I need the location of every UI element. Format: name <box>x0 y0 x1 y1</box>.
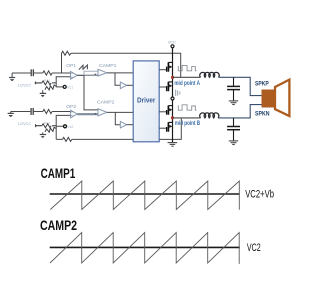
ground GND7 (filter B) <box>229 141 238 145</box>
icon PWM A <box>178 65 196 70</box>
capacitor C4 (filter B) <box>227 118 240 141</box>
node terminal Vs1 <box>63 85 66 88</box>
wire L1 to speaker SPKP <box>219 77 262 95</box>
terminal tick 1/2VCC A <box>35 82 42 85</box>
resistor R1 (input A series) <box>43 71 52 75</box>
svg-text:mid point A: mid point A <box>174 80 200 87</box>
inductor L2 <box>200 113 219 118</box>
wire feedback A rail to mid point A <box>62 53 181 77</box>
capacitor C3 (filter A) <box>227 77 240 100</box>
icon signal bars <box>176 90 180 96</box>
wire ramp down to CAMP2 <box>84 75 98 110</box>
wire OP1 output <box>77 74 98 76</box>
resistor R2 (divider A upper) <box>42 81 56 85</box>
wire BUF2 to Driver <box>127 124 134 126</box>
speaker SPKR <box>262 80 290 116</box>
axis CAMP1 <box>50 193 240 195</box>
wire mid point A to filter <box>173 76 201 78</box>
svg-text:VCC: VCC <box>168 41 176 45</box>
wire R4 to OP2 inverting input <box>52 111 70 113</box>
op-amp OP1 <box>71 71 78 79</box>
svg-text:CAMP2: CAMP2 <box>40 218 77 234</box>
resistor RF2 (feedback B) <box>63 137 72 141</box>
transistor Q1 <box>159 62 172 71</box>
svg-text:1/2VCC: 1/2VCC <box>18 122 32 126</box>
transistor Q3 <box>159 106 172 115</box>
transistor Q2 <box>159 82 172 91</box>
ground GND4 (divider B) <box>40 132 46 137</box>
icon PWM B <box>178 105 196 110</box>
svg-text:CAMP1: CAMP1 <box>41 166 76 182</box>
svg-text:Vs1: Vs1 <box>67 85 73 89</box>
node mid point A (red dot) <box>171 76 174 79</box>
wire power rail (VCC to ground) <box>172 48 174 143</box>
buffer BUF1 <box>120 82 126 89</box>
terminal mid rail <box>171 97 174 100</box>
resistor R4 (input B series) <box>43 109 52 113</box>
wire CAMP2 output to Driver <box>107 111 133 113</box>
bus box (ramp to CAMP1) <box>84 71 98 75</box>
sawtooth CAMP1 <box>50 181 239 210</box>
wire mid point B to filter <box>173 117 201 119</box>
resistor R3 (divider A lower, tilted) <box>45 85 56 90</box>
sawtooth CAMP2 <box>50 233 239 264</box>
inductor L1 <box>200 72 220 77</box>
wire CAMP2 branch to buffer <box>115 112 120 124</box>
comparator CAMP2 <box>95 109 107 116</box>
ground GND1 (input A) <box>9 73 15 81</box>
wire feedback B rail to mid point B <box>56 118 181 139</box>
wire input B to coupling cap <box>11 111 31 113</box>
comparator CAMP1 <box>95 69 107 76</box>
resistor R5 (divider B upper) <box>42 124 56 128</box>
svg-text:1/2VCC: 1/2VCC <box>18 84 32 88</box>
terminal tick 1/2VCC B <box>36 124 42 127</box>
svg-text:mid point B: mid point B <box>175 120 201 127</box>
terminal VCC <box>171 45 174 48</box>
svg-text:CAMP2: CAMP2 <box>97 100 115 105</box>
svg-text:Driver: Driver <box>137 96 155 105</box>
svg-text:CAMP1: CAMP1 <box>99 63 117 68</box>
svg-text:VC2+Vb: VC2+Vb <box>245 189 274 201</box>
wire BUF1 to Driver <box>127 84 134 86</box>
wire CAMP1 output to Driver <box>107 72 133 74</box>
driver U1 <box>133 61 159 142</box>
ground GND6 (filter A) <box>229 101 238 105</box>
capacitor C1 (input A coupling) <box>31 69 33 76</box>
wire OP2 output (thick) to CAMP2 <box>77 113 98 115</box>
node mid point B (red dot) <box>171 116 174 119</box>
resistor R6 (divider B lower, tilted) <box>45 127 56 132</box>
wire OP1 non-inverting input to divider node <box>56 77 70 87</box>
resistor RF1 (feedback A) <box>62 51 71 55</box>
wire OP2 non-inverting input down to feedback rail <box>56 115 70 139</box>
wire L2 to speaker SPKN <box>218 105 261 118</box>
wire R1 to OP1 inverting input <box>52 72 70 74</box>
svg-text:VC2: VC2 <box>247 242 261 254</box>
transistor Q4 <box>159 122 172 131</box>
sawtooth icon (ramp at OP1 output) <box>79 65 88 70</box>
svg-text:OP1: OP1 <box>66 63 76 68</box>
ground GND3 (input B) <box>8 112 14 117</box>
wire input A to coupling cap <box>12 72 30 74</box>
wire C2 to R4 <box>33 111 43 113</box>
op-amp OP2 <box>71 110 78 118</box>
ground GND5 (power) <box>168 143 178 147</box>
buffer BUF2 <box>120 121 126 128</box>
wire C1 to R1 <box>33 72 43 74</box>
svg-text:Vs2: Vs2 <box>67 125 73 129</box>
capacitor C2 (input B coupling) <box>31 108 33 115</box>
ground GND2 (divider A) <box>40 90 46 97</box>
svg-text:SPKP: SPKP <box>255 81 269 87</box>
wire CAMP1 branch to buffer <box>115 73 120 85</box>
svg-text:SPKN: SPKN <box>255 112 270 118</box>
node terminal Vs2 <box>64 125 67 128</box>
svg-text:OP2: OP2 <box>66 104 76 109</box>
axis CAMP2 <box>50 246 240 248</box>
